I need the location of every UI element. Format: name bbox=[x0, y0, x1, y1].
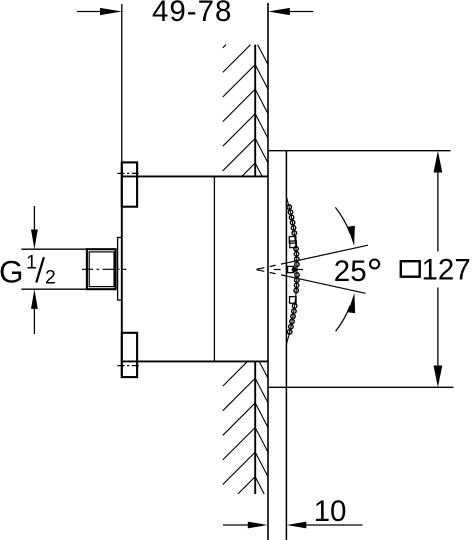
wire: angle arc lower bbox=[336, 306, 351, 332]
nozzle squares bbox=[288, 237, 297, 304]
wire: faceplate bottom edge + extension bbox=[268, 386, 454, 388]
node: arrow 127 bottom bbox=[434, 366, 443, 388]
wire: dim line 127 upper bbox=[437, 165, 439, 252]
node: angle arrow lower bbox=[348, 293, 355, 313]
node: arrow 49-78 left bbox=[100, 8, 122, 15]
mounting tab top bbox=[122, 162, 137, 206]
connector flange bbox=[118, 238, 122, 301]
wire: spray upper line bbox=[289, 245, 368, 262]
svg-text:1: 1 bbox=[26, 252, 37, 274]
wire: dim line 49-78 left tail bbox=[77, 11, 101, 13]
node: arrow 127 top bbox=[434, 151, 443, 173]
node: arrow 10 right bbox=[287, 522, 307, 529]
node: tab top screw centerline bbox=[118, 172, 141, 174]
mounting tab bottom bbox=[122, 333, 137, 377]
node: center nozzle dot bbox=[292, 267, 297, 272]
wire: wall rough-surface line lower bbox=[254, 362, 256, 495]
svg-text:127: 127 bbox=[422, 253, 471, 286]
node: spray centerline dash b bbox=[297, 269, 304, 271]
wire: spray lower line dashed part bbox=[257, 270, 290, 277]
svg-text:49-78: 49-78 bbox=[152, 0, 232, 28]
node: G1/2 arrow top bbox=[31, 230, 38, 250]
node: tab bottom screw centerline bbox=[118, 365, 141, 367]
wire: dim line 10 left tail bbox=[223, 524, 249, 526]
wire: extension line right (wall surface / full height) bbox=[267, 3, 269, 540]
node: fraction slash bbox=[36, 257, 44, 282]
node: angle arrow upper bbox=[348, 226, 355, 246]
wire: wall rough-surface line upper bbox=[254, 45, 256, 177]
wall hatching (section lines) bbox=[223, 45, 268, 494]
wire: body top edge bbox=[121, 175, 267, 177]
wire: faceplate front extension implicit bbox=[285, 387, 287, 540]
node: arrow 49-78 right bbox=[268, 8, 290, 15]
node: arrow 10 left bbox=[248, 522, 268, 529]
svg-text:2: 2 bbox=[45, 267, 56, 289]
svg-text:25°: 25° bbox=[334, 252, 383, 296]
wire: bracket plate left edge bbox=[121, 163, 123, 377]
wire: G1/2 arrow line bottom bbox=[33, 307, 35, 334]
wire: faceplate top edge + extension bbox=[268, 150, 451, 152]
thread nipple outer bbox=[87, 249, 116, 289]
node: connector centerline bbox=[82, 268, 127, 270]
svg-text:10: 10 bbox=[314, 495, 347, 528]
nozzle chain circles bbox=[287, 205, 299, 334]
wire: dim line 49-78 right tail bbox=[289, 11, 313, 13]
node: G1/2 arrow bottom bbox=[31, 289, 38, 309]
wire: G1/2 extension bottom bbox=[21, 288, 87, 290]
svg-text:G: G bbox=[0, 254, 24, 290]
wire: G1/2 extension top bbox=[21, 248, 87, 250]
wire: spray upper line dashed part bbox=[257, 262, 290, 269]
wire: spray lower line bbox=[289, 277, 366, 294]
wire: angle arc upper bbox=[335, 207, 350, 233]
wire: G1/2 arrow line top bbox=[33, 206, 35, 231]
wire: dim line 127 lower bbox=[437, 288, 439, 374]
node: square symbol bbox=[401, 261, 420, 277]
wire: body step line bbox=[213, 176, 215, 361]
thread nipple inner bbox=[89, 252, 114, 287]
spray face arc bbox=[286, 197, 297, 345]
wire: faceplate front line bbox=[285, 151, 287, 540]
wire: dim line 10 right tail bbox=[305, 524, 363, 526]
wire: extension line left (mounting face) bbox=[121, 4, 123, 163]
node: spray centerline dash a bbox=[274, 269, 281, 271]
wire: body bottom edge bbox=[121, 360, 267, 362]
